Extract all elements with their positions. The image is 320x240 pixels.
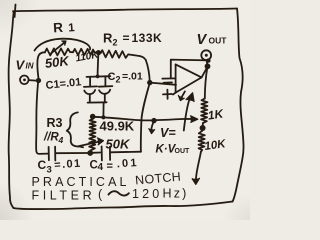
svg-text:3: 3 [47,165,52,176]
label C4=.01 [90,157,140,173]
caption line 1 [32,170,182,189]
svg-text:PRACTICAL: PRACTICAL [32,175,130,189]
op-amp U1 [173,64,202,94]
resistor chain R3/R4 (49.9K + 50K) [89,117,96,150]
wire C4 to op-amp input wire [111,151,141,154]
plus sign [163,90,172,99]
label C2=.01 [108,71,143,85]
svg-text:V: V [16,58,26,73]
resistor 1K [201,99,208,126]
bootstrap rail wire with arrow [93,116,198,122]
svg-text:50K: 50K [106,137,131,152]
capacitor C2 [99,76,113,102]
svg-text:4: 4 [98,162,104,173]
node G (output junction) [205,63,211,69]
node cap/rail [101,115,105,119]
wire op-amp output to node G [202,67,208,77]
V= pointer arrow [149,121,155,134]
svg-text:K·V: K·V [156,144,177,156]
svg-text:OUT: OUT [209,36,228,46]
wire R2 down to op-amp input [146,60,150,83]
node A (input junction) [36,78,41,83]
capacitor C1 [84,77,97,103]
svg-text:2: 2 [113,38,118,48]
terminal VOUT [201,50,211,64]
label VIN [16,58,34,73]
capacitor C3 [49,147,56,161]
svg-text:R3: R3 [47,116,63,130]
node D (divider tap) [200,125,206,131]
K adjust arrow (long) [184,93,194,131]
resistor R1 (110K section) [73,49,97,55]
svg-text:C: C [38,158,47,172]
label R1 [53,20,76,36]
minus sign [164,81,173,83]
svg-text:FILTER: FILTER [32,189,96,203]
svg-text:133K: 133K [132,31,163,45]
R1 wiper arrow [51,41,67,54]
label K.Vout [156,144,191,156]
resistor 10K [199,131,205,152]
terminal VIN [20,76,36,85]
svg-text:2: 2 [116,75,121,85]
svg-text:=.01: =.01 [54,158,82,172]
wire input up to R1 [37,52,45,78]
svg-text:49.9K: 49.9K [100,119,135,134]
label V= [160,126,176,140]
wire node G down to 1K [205,67,208,99]
capacitor C1/C2 bottom rail [88,101,107,103]
svg-text:R: R [53,20,64,36]
node F (C3/C4 junction) [87,150,93,156]
50K wiper arrow [78,138,104,147]
label C3=.01 [38,158,83,176]
wire C3 to node F [56,152,88,154]
label ||R4 [43,132,64,146]
svg-text://R: //R [43,132,59,144]
wire node C to op-amp + [150,83,176,85]
node B (R1/R2 junction) [96,50,101,55]
caption tilde [109,191,129,195]
node E (rail left / R3R4 top) [90,114,96,120]
svg-text:120: 120 [132,187,162,201]
ground arrow [192,152,201,185]
svg-text:Hz): Hz) [163,187,189,201]
label VOUT [197,32,228,48]
svg-text:50K: 50K [44,53,71,71]
node H (V= anchor on rail) [151,118,156,123]
svg-text:OUT: OUT [175,148,191,155]
paper background [0,0,250,220]
svg-text:V: V [197,32,208,48]
svg-text:=.01: =.01 [122,71,143,83]
svg-text:V=: V= [160,126,176,140]
wire node F to C4 [93,152,101,154]
svg-text:C: C [108,71,116,83]
caption line 2 [32,187,189,203]
svg-text:.01: .01 [116,157,139,170]
op-amp minus stub [162,77,175,79]
svg-text:=: = [123,31,130,45]
wire cap block down to rail [102,102,104,117]
border frame [9,5,244,210]
node cap feed/top rail [96,75,100,79]
wire node C down to bottom arm [141,83,150,152]
brace over R1 [35,39,91,51]
label R3 [47,116,63,130]
svg-text:R: R [103,31,113,46]
brace for R3||R4 [67,112,83,147]
svg-text:IN: IN [26,62,34,71]
resistor R1 (50K section, pot) [45,48,73,55]
node feedback corner [206,58,210,62]
k small arrow [178,91,185,100]
capacitor C1/C2 top rail [87,75,111,78]
capacitor C4 [102,146,111,160]
wire cap feed from node B [97,53,100,76]
resistor R2 [99,50,146,60]
feedback wire (minus to output) [171,60,209,79]
svg-text:=: = [107,161,113,173]
label R2=133K [103,31,162,48]
svg-text:4: 4 [58,135,64,145]
node C (+ input junction) [147,80,152,85]
wire VIN down to C3 [36,83,48,154]
